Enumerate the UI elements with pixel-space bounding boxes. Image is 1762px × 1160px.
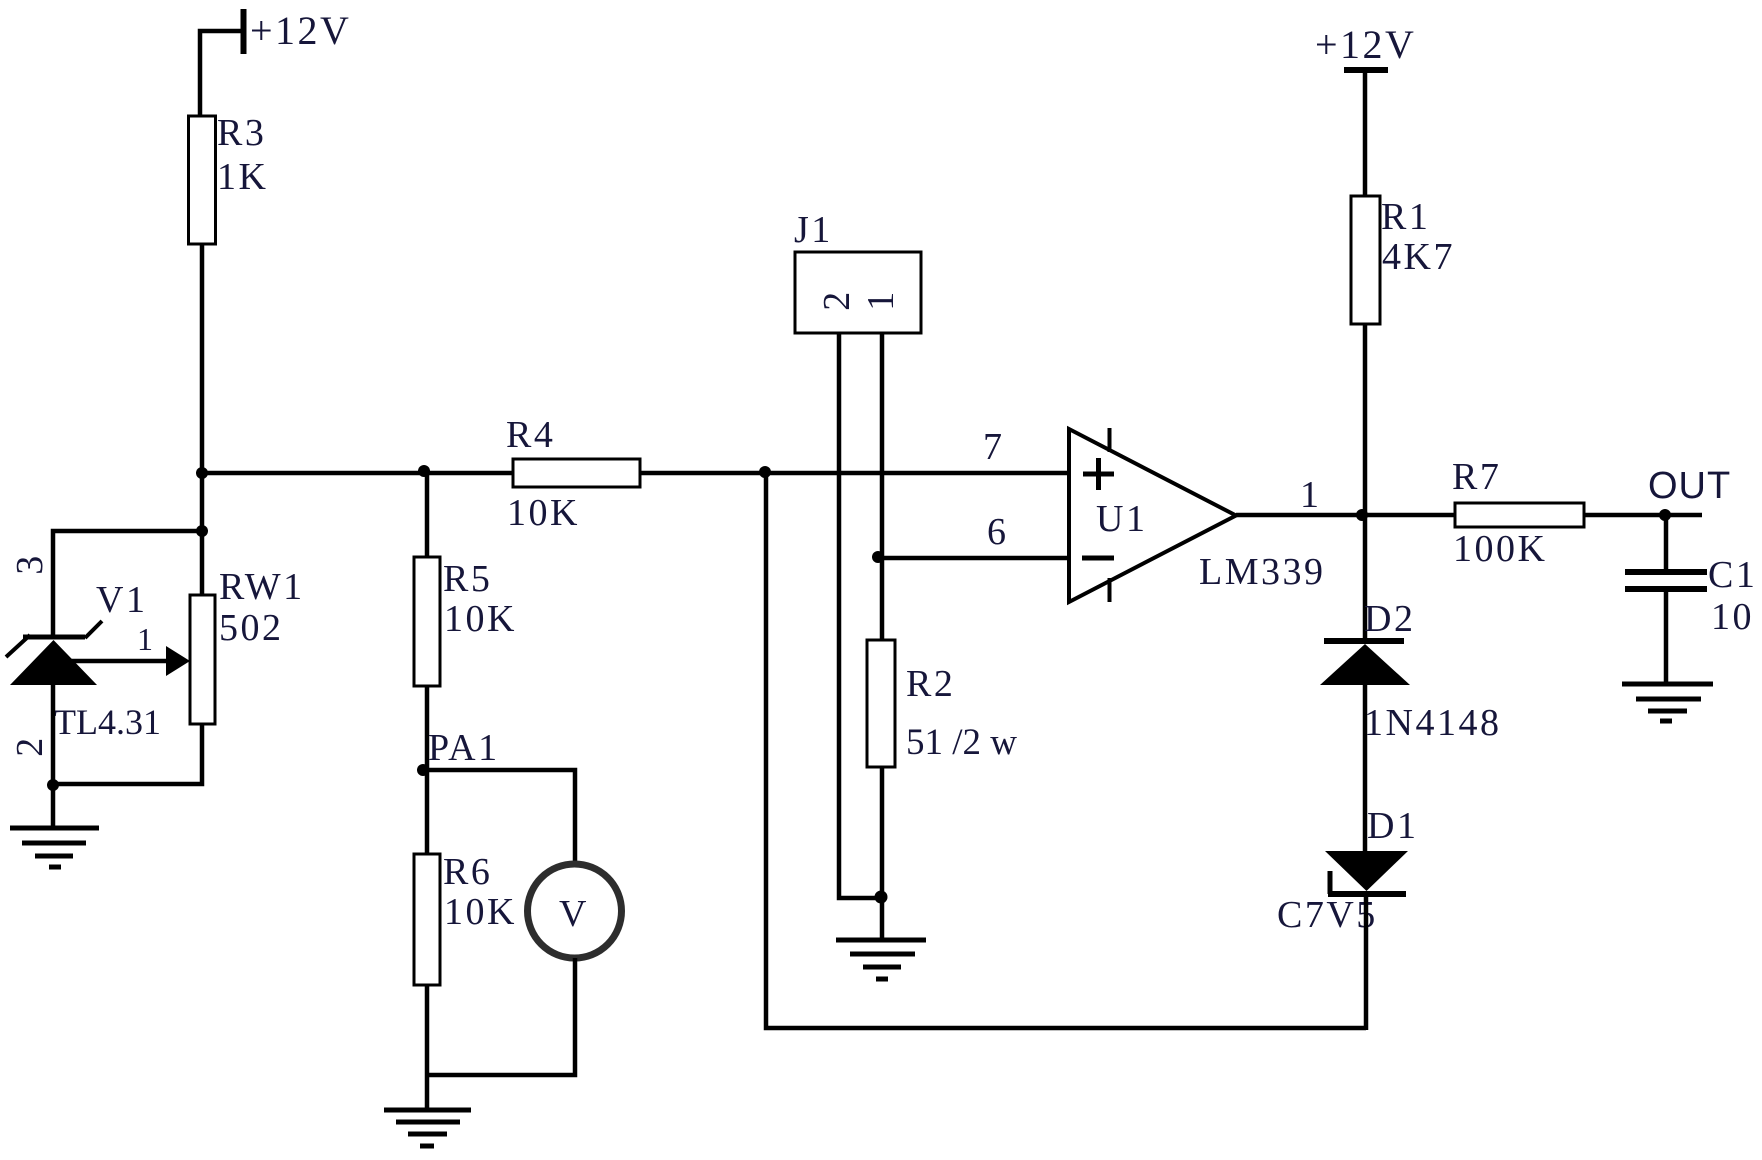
wire D1 to feedback bottom xyxy=(1364,894,1369,1030)
svg-text:R5: R5 xyxy=(443,558,492,600)
wire voltmeter bottom return xyxy=(427,958,575,1075)
svg-text:OUT: OUT xyxy=(1648,465,1731,507)
svg-text:1N4148: 1N4148 xyxy=(1364,702,1501,744)
resistor R6 xyxy=(414,851,517,985)
wire feedback bottom run xyxy=(766,473,1366,1028)
resistor R4 xyxy=(506,414,640,534)
wire 6-line to op-amp xyxy=(878,556,1069,561)
TL431 V1 pin 3 wire xyxy=(53,531,202,639)
svg-text:1: 1 xyxy=(1300,474,1322,516)
TL431 V1 zener bar xyxy=(23,635,85,640)
svg-text:PA1: PA1 xyxy=(428,727,500,769)
wire R5 to PA1 xyxy=(425,686,430,854)
node bus-left junction xyxy=(196,467,208,479)
ground (below C1) xyxy=(1622,684,1713,721)
diode D2 xyxy=(1320,598,1501,744)
ground (below R2) xyxy=(836,940,926,979)
wire op-amp output xyxy=(1236,513,1455,518)
resistor R7 xyxy=(1452,456,1584,570)
svg-text:502: 502 xyxy=(219,607,284,649)
resistor R1 xyxy=(1351,196,1455,324)
zener D1 xyxy=(1277,805,1418,936)
wire J1 pin2 down and to R2 bottom node xyxy=(839,333,882,898)
TL431 bar right hook xyxy=(85,621,102,638)
wire D2 to D1 xyxy=(1363,685,1368,851)
wire main bus xyxy=(202,471,513,476)
svg-text:+12V: +12V xyxy=(250,8,351,53)
wire bus right of R4 to op-amp xyxy=(640,471,1069,476)
svg-text:4K7: 4K7 xyxy=(1382,236,1455,278)
ground (left, below TL431) xyxy=(10,828,99,867)
potentiometer RW1 xyxy=(190,566,305,724)
node PA1 xyxy=(417,764,429,776)
svg-text:+12V: +12V xyxy=(1315,22,1416,67)
svg-text:1: 1 xyxy=(860,289,902,311)
TL431 V1 triangle xyxy=(10,640,97,685)
resistor R2 xyxy=(867,640,1017,767)
wire pin2 to ground xyxy=(51,785,56,830)
node pin2 xyxy=(47,779,59,791)
svg-text:10K: 10K xyxy=(444,891,517,933)
TL431 reference wire to RW1 wiper xyxy=(55,659,168,664)
svg-text:R2: R2 xyxy=(906,663,955,705)
svg-text:100K: 100K xyxy=(1453,528,1547,570)
svg-text:51 /2 w: 51 /2 w xyxy=(906,722,1017,763)
wire J1 pin1 down to R2 xyxy=(880,333,885,640)
wire pin2 to RW1 bottom xyxy=(53,722,202,784)
wire +12V to R1 xyxy=(1363,70,1368,196)
svg-text:R3: R3 xyxy=(217,112,266,154)
wiper arrowhead xyxy=(166,646,190,676)
node pin3 tee xyxy=(196,525,208,537)
connector J1 xyxy=(794,209,921,333)
svg-text:V: V xyxy=(559,893,589,935)
svg-text:7: 7 xyxy=(983,426,1005,468)
svg-text:U1: U1 xyxy=(1096,498,1147,540)
node feedback branch xyxy=(759,466,771,478)
svg-text:TL4.31: TL4.31 xyxy=(54,702,161,742)
svg-text:R7: R7 xyxy=(1452,456,1501,498)
capacitor C1 xyxy=(1625,554,1757,638)
svg-text:1K: 1K xyxy=(217,156,268,198)
svg-text:J1: J1 xyxy=(794,209,833,251)
node output junction xyxy=(1356,509,1368,521)
svg-text:1: 1 xyxy=(137,621,156,657)
svg-text:6: 6 xyxy=(987,511,1009,553)
node inverting input branch xyxy=(872,551,884,563)
svg-text:V1: V1 xyxy=(96,579,147,621)
wire C1 to ground xyxy=(1664,589,1669,686)
wire R3 to bus node xyxy=(200,244,205,595)
node OUT xyxy=(1659,509,1671,521)
svg-text:3: 3 xyxy=(9,553,51,575)
wire R7 to OUT xyxy=(1584,513,1702,518)
svg-text:2: 2 xyxy=(816,289,858,311)
wire OUT to C1 xyxy=(1664,515,1669,572)
svg-text:R4: R4 xyxy=(506,414,555,456)
node R5 branch xyxy=(418,465,430,477)
op-amp U1 xyxy=(1069,428,1326,602)
svg-text:C1: C1 xyxy=(1708,554,1757,596)
wire TL431 anode down to pin2 node xyxy=(51,684,56,787)
svg-text:C7V5: C7V5 xyxy=(1277,894,1378,936)
svg-text:R6: R6 xyxy=(443,851,492,893)
svg-text:10K: 10K xyxy=(507,492,580,534)
svg-text:D2: D2 xyxy=(1364,598,1415,640)
wire bus to R5 xyxy=(425,473,430,557)
wire R1 to output node and D2 xyxy=(1363,324,1368,641)
voltmeter PA1 meter xyxy=(528,864,622,958)
svg-text:R1: R1 xyxy=(1381,196,1430,238)
TL431 bar left hook xyxy=(6,635,30,657)
resistor R3 xyxy=(189,112,269,244)
svg-text:10K: 10K xyxy=(444,598,517,640)
power +12V (right) xyxy=(1315,22,1416,70)
svg-text:2: 2 xyxy=(9,735,51,757)
ground (bottom center) xyxy=(384,1110,471,1146)
wire from +12V bar to R3 xyxy=(200,31,243,118)
resistor R5 xyxy=(414,557,517,686)
node R2 bottom junction xyxy=(875,891,888,904)
svg-text:LM339: LM339 xyxy=(1199,551,1326,593)
svg-text:RW1: RW1 xyxy=(219,566,305,608)
wire R6 to ground xyxy=(425,985,430,1112)
svg-text:D1: D1 xyxy=(1367,805,1418,847)
wire PA1 to voltmeter xyxy=(423,770,575,866)
power +12V (left) xyxy=(244,8,352,54)
svg-text:10: 10 xyxy=(1711,596,1754,638)
wire R2 to ground xyxy=(880,767,885,941)
